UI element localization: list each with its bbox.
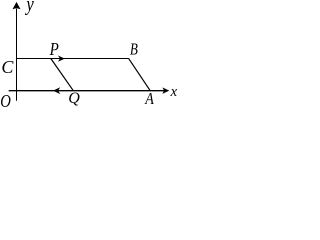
svg-text:C: C	[1, 57, 14, 77]
svg-text:y: y	[25, 0, 34, 16]
svg-text:O: O	[0, 91, 11, 109]
svg-text:P: P	[49, 39, 59, 59]
svg-text:A: A	[144, 89, 154, 108]
svg-text:x: x	[170, 84, 177, 100]
svg-text:Q: Q	[68, 90, 80, 107]
svg-text:B: B	[130, 40, 138, 59]
